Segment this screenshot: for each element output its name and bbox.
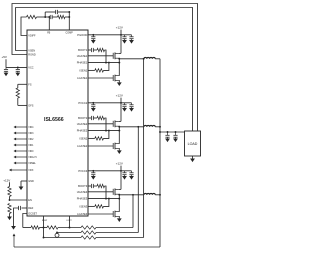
svg-text:OFS: OFS [28, 105, 33, 108]
capacitor C_IN1b [131, 35, 133, 37]
wire FB pin stub [48, 17, 50, 30]
ground for CVCC1 [4, 73, 9, 77]
ground for C_IN3b [129, 176, 134, 180]
capacitor C_PV1 [92, 35, 94, 37]
wire LGATE2 pin [88, 145, 113, 147]
svg-text:+12V: +12V [116, 26, 123, 30]
svg-text:ISEN2: ISEN2 [80, 137, 88, 141]
wire QL3 source to ground [118, 216, 121, 218]
node VID12.5 input arrow [16, 156, 27, 158]
svg-text:+12V: +12V [116, 162, 123, 166]
node row3 link dot [43, 237, 45, 239]
ground for C_IN2a [122, 108, 127, 112]
svg-text:LGATE1: LGATE1 [77, 76, 88, 80]
node row1 dot at IOUT stub [69, 227, 71, 229]
wire comp top branch left [45, 11, 56, 13]
wire comp bottom branch lead [45, 16, 50, 18]
node isen-phase junction dot [108, 62, 110, 64]
resistor R_OFS row1 [31, 226, 40, 229]
wire +12V rail phase 3 [120, 166, 122, 171]
wire QH2 source to phase node [118, 125, 121, 128]
load box [185, 131, 201, 156]
node VID4 input arrow [16, 126, 27, 128]
capacitor C2 parallel comp [55, 10, 57, 14]
capacitor CVCC2 bypass [17, 67, 19, 69]
svg-text:PHASE1: PHASE1 [77, 61, 88, 65]
transistor QH3 upper MOSFET [112, 189, 114, 195]
wire REN2 to ground [9, 214, 11, 217]
node row1 dot at IDROOP stub [43, 227, 45, 229]
transistor QL1 lower MOSFET [112, 75, 114, 81]
wire rail cap stub phase 2 [121, 102, 132, 104]
wire load ground stem [192, 156, 194, 159]
wire inductor to VOUT bus [155, 194, 160, 196]
resistor R_DRP row1 [47, 226, 58, 229]
wire PVCC2 pin [88, 102, 121, 104]
capacitor C_IN3a [124, 171, 126, 173]
wire PVCC1 pin [88, 34, 121, 36]
wire QH3 source to phase node [118, 193, 121, 196]
wire CREF to ground riser [14, 208, 19, 226]
wire rail to QH3 drain [120, 171, 122, 190]
node rail junction dot phase 3 [120, 170, 122, 172]
wire +12V rail phase 1 [120, 30, 122, 35]
svg-text:PVCC3: PVCC3 [78, 169, 87, 173]
svg-text:PGOOD: PGOOD [77, 33, 87, 37]
wire VOUT bus vertical [159, 59, 161, 247]
op-amp U1 ISL6566 controller IC body [27, 30, 88, 216]
svg-text:FB: FB [47, 32, 50, 35]
wire phase to inductor [119, 126, 144, 128]
wire ISEN1 pin [88, 69, 95, 71]
svg-text:VID2: VID2 [28, 139, 34, 141]
wire BOOT3 pin [88, 185, 91, 187]
wire vertical row1-row3 link [43, 228, 45, 238]
resistor RT frequency set [16, 88, 19, 98]
svg-text:VID1: VID1 [28, 145, 34, 147]
svg-text:VID12.5: VID12.5 [28, 157, 37, 159]
wire phase node vertical [118, 59, 120, 76]
wire LGATE3 pin [88, 213, 113, 215]
resistor REN2 enable divider lower [8, 204, 11, 214]
capacitor C_IN1a [124, 35, 126, 37]
node VID3 input arrow [16, 132, 27, 134]
capacitor C_IN3b [131, 171, 133, 173]
capacitor COUT2 bulk output [175, 132, 177, 135]
node riser2 tap dot [137, 126, 139, 128]
node EN junction dot [9, 199, 11, 201]
svg-text:ISEN3: ISEN3 [80, 205, 88, 209]
svg-text:IOUT: IOUT [67, 220, 73, 222]
ground for QL1 [117, 82, 122, 86]
ground for C_IN1b [129, 40, 134, 44]
wire FS pin [18, 83, 27, 85]
node VID2 input arrow [16, 138, 27, 140]
ground for COUT1 [165, 139, 170, 143]
node FB junction dot [44, 16, 46, 18]
svg-text:VFIX: VFIX [28, 170, 34, 172]
resistor RS2 row2 [81, 231, 96, 234]
wire CBOOT1 to RBOOT1 [93, 49, 97, 51]
wire phase to inductor [119, 194, 144, 196]
wire OFS pin [18, 104, 27, 106]
svg-text:ISEN1: ISEN1 [80, 69, 88, 73]
resistor RFB feedback [27, 15, 37, 18]
wire +12V rail phase 2 [120, 98, 122, 103]
node rail junction dot phase 2 [120, 102, 122, 104]
resistor RISEN1 [95, 69, 104, 72]
wire bottom row1 left [23, 227, 31, 229]
svg-text:BOOT1: BOOT1 [78, 48, 88, 52]
node PVCC3 cap junction dot [92, 170, 94, 172]
wire comp top branch right [58, 11, 70, 13]
ground for EN divider [7, 217, 12, 221]
wire PHASE3 pin [88, 198, 119, 200]
svg-text:COMP: COMP [66, 32, 74, 35]
wire rail to QH2 drain [120, 103, 122, 122]
capacitor C_SUM circle component [56, 232, 58, 235]
node VOUT bus junction dots [159, 126, 161, 128]
transistor QL2 lower MOSFET [112, 143, 114, 149]
svg-text:UGATE2: UGATE2 [77, 122, 88, 126]
svg-text:+5V: +5V [2, 55, 7, 59]
wire QH1 source to phase node [118, 57, 121, 60]
svg-text:IDRP: IDRP [42, 220, 48, 222]
wire BOOT2 pin [88, 117, 91, 119]
wire FS to RT [17, 84, 19, 88]
node PVCC2 cap junction dot [92, 102, 94, 104]
node boot-phase junction dot [105, 130, 107, 132]
node PGOOD-EN input arrow [11, 169, 27, 171]
wire QL2 drain to phase node [118, 143, 121, 145]
resistor RBOOT3 [97, 184, 105, 187]
node VID0 input arrow [16, 150, 27, 152]
wire VCC pin [6, 66, 27, 68]
wire QH3 drain to rail [119, 188, 121, 190]
node summing cap junction dot [56, 232, 58, 234]
wire QL1 drain to phase node [118, 75, 121, 77]
wire +5V drop to VCC [5, 59, 7, 67]
wire COMP pin stub [68, 12, 70, 30]
wire boot elbow to phase [105, 118, 107, 131]
capacitor CREF [18, 206, 20, 210]
ground for C_IN3a [122, 176, 127, 180]
wire RT to OFS [17, 98, 19, 105]
wire VSEN remote sense route [16, 8, 193, 132]
resistor RS3 row1 [81, 226, 96, 229]
resistor RBOOT1 [97, 48, 105, 51]
node VCC bypass junction [17, 66, 19, 68]
wire inductor to VOUT bus [155, 126, 160, 128]
wire boot elbow to phase [105, 186, 107, 199]
inductor L2 [144, 125, 155, 126]
wire RC to COMP node [65, 16, 69, 18]
svg-text:UGATE1: UGATE1 [77, 54, 88, 58]
wire ISEN3 pin [88, 205, 95, 207]
ground for QL3 [117, 218, 122, 222]
wire row2 to riser phase2 [96, 232, 138, 234]
wire row2 left [57, 232, 81, 234]
wire +12V to REN1 [9, 182, 11, 186]
wire UGATE3 pin [88, 191, 113, 193]
capacitor CBOOT3 [90, 184, 92, 188]
resistor RBOOT2 [97, 116, 105, 119]
wire VOUT to load [160, 131, 185, 133]
ground for load [190, 159, 195, 163]
node isen-phase junction dot [108, 198, 110, 200]
svg-text:VID0: VID0 [28, 151, 34, 153]
wire REN1 to EN node [9, 197, 11, 201]
wire riser to phase1 node [143, 59, 145, 238]
ground for GND pin [19, 187, 24, 191]
transistor QH2 upper MOSFET [112, 121, 114, 127]
node PVCC1 cap junction dot [92, 34, 94, 36]
svg-text:+12V: +12V [116, 94, 123, 98]
capacitor CVCC1 bypass [5, 67, 7, 69]
wire phase node vertical [118, 127, 120, 144]
wire PVCC3 pin [88, 170, 121, 172]
resistor RISEN3 [95, 205, 104, 208]
ground for C_PV1 [91, 40, 96, 44]
capacitor C_PV3 [92, 171, 94, 173]
svg-text:LGATE2: LGATE2 [77, 144, 88, 148]
wire LGATE1 pin [88, 77, 113, 79]
transistor QL3 lower MOSFET [112, 211, 114, 217]
svg-text:EN: EN [28, 199, 32, 202]
capacitor CBOOT1 [90, 48, 92, 52]
ground for C_PV2 [91, 108, 96, 112]
svg-text:+12V: +12V [3, 178, 10, 182]
capacitor COUT1 bulk output [167, 132, 169, 135]
wire REF pin [22, 207, 28, 209]
inductor L3 [144, 193, 155, 194]
wire VOUT bottom return [14, 246, 160, 248]
wire IOUT pin stub [69, 216, 71, 228]
node VOUT return arrow up [13, 236, 15, 247]
wire PHASE1 pin [88, 62, 119, 64]
node phase junction dots [118, 126, 120, 128]
resistor REN1 enable divider upper [8, 187, 11, 197]
wire row1 mid a [40, 227, 48, 229]
resistor RS1 row3 [81, 236, 96, 239]
wire ISEN elbow to phase [104, 63, 109, 71]
wire GND pin [21, 180, 27, 182]
wire OCSET pin elbow [23, 214, 27, 228]
wire QL1 source to ground [118, 80, 121, 82]
wire RFB to FB node [37, 16, 46, 18]
wire PHASE2 pin [88, 130, 119, 132]
svg-text:BOOT2: BOOT2 [78, 116, 88, 120]
svg-text:BOOT3: BOOT3 [78, 184, 88, 188]
ground for C_IN2b [129, 108, 134, 112]
svg-text:VDIFF: VDIFF [28, 35, 36, 38]
wire QH2 drain to rail [119, 120, 121, 122]
transistor QH1 upper MOSFET [112, 53, 114, 59]
wire IDROOP pin stub [43, 216, 45, 228]
svg-text:LGATE3: LGATE3 [77, 212, 88, 216]
resistor RC comp [58, 15, 66, 18]
svg-text:OCSET: OCSET [28, 212, 37, 215]
ground for C_IN1a [122, 40, 127, 44]
ground for C_PV3 [91, 176, 96, 180]
wire row1 to riser phase3 [96, 227, 133, 229]
wire GND stem [20, 181, 22, 187]
svg-text:UGATE3: UGATE3 [77, 190, 88, 194]
svg-text:GND: GND [28, 180, 34, 183]
node phase junction dots [118, 194, 120, 196]
wire phase to inductor [119, 58, 144, 60]
node phase junction dots [118, 58, 120, 60]
svg-text:VRSEL: VRSEL [28, 163, 36, 165]
capacitor C_IN2a [124, 103, 126, 105]
inductor L1 [144, 57, 155, 58]
ground for CVCC2 [15, 73, 20, 77]
node comp-left vertical [44, 12, 46, 17]
wire ISEN elbow to phase [104, 131, 109, 139]
svg-text:VID3: VID3 [28, 133, 34, 135]
wire QL2 source to ground [118, 148, 121, 150]
node boot-phase junction dot [105, 62, 107, 64]
capacitor C1 series comp [49, 15, 51, 19]
svg-text:PVCC2: PVCC2 [78, 101, 87, 105]
wire ISEN2 pin [88, 137, 95, 139]
wire EN pin [10, 199, 28, 201]
node VRSEL input arrow [16, 162, 27, 164]
wire inductor to VOUT bus [155, 58, 160, 60]
svg-text:ISL6566: ISL6566 [44, 117, 64, 123]
wire phase node vertical [118, 195, 120, 212]
wire boot elbow to phase [105, 50, 107, 63]
svg-text:LOAD: LOAD [188, 142, 198, 146]
wire CBOOT2 to RBOOT2 [93, 117, 97, 119]
wire row3 left [44, 237, 82, 239]
capacitor C_IN2b [131, 103, 133, 105]
wire RGND remote sense route [12, 4, 198, 132]
svg-text:FS: FS [28, 83, 32, 86]
wire QL3 drain to phase node [118, 211, 121, 213]
svg-text:REF: REF [28, 207, 33, 210]
node COMP junction dots [68, 11, 70, 13]
ground for CREF [11, 226, 16, 230]
wire riser to phase2 node [137, 127, 139, 233]
wire rail cap stub phase 3 [121, 170, 132, 172]
wire QH1 drain to rail [119, 52, 121, 54]
svg-text:PHASE2: PHASE2 [77, 129, 88, 133]
svg-text:VCC: VCC [28, 67, 33, 70]
node rail junction dot phase 1 [120, 34, 122, 36]
node boot-phase junction dot [105, 198, 107, 200]
wire C1 to RC [52, 16, 57, 18]
capacitor C_PV2 [92, 103, 94, 105]
wire rail to QH1 drain [120, 35, 122, 54]
wire row1 mid b [58, 227, 81, 229]
wire row3 to riser phase1 [96, 237, 144, 239]
node riser3 tap dot [132, 194, 134, 196]
wire CBOOT3 to RBOOT3 [93, 185, 97, 187]
svg-text:VSEN: VSEN [28, 50, 35, 53]
wire ISEN elbow to phase [104, 199, 109, 207]
ground for QL2 [117, 150, 122, 154]
svg-text:RGND: RGND [28, 54, 36, 57]
svg-text:VID4: VID4 [28, 127, 34, 129]
capacitor CBOOT2 [90, 116, 92, 120]
ground for COUT2 [173, 139, 178, 143]
node VDIFF wire elbow to feedback resistor [21, 17, 27, 36]
resistor RISEN2 [95, 137, 104, 140]
wire riser to phase3 node [132, 195, 134, 228]
node riser1 tap dot [143, 58, 145, 60]
wire UGATE2 pin [88, 123, 113, 125]
wire BOOT1 pin [88, 49, 91, 51]
wire UGATE1 pin [88, 55, 113, 57]
node VID1 input arrow [16, 144, 27, 146]
node isen-phase junction dot [108, 130, 110, 132]
wire rail cap stub phase 1 [121, 34, 132, 36]
svg-text:PHASE3: PHASE3 [77, 197, 88, 201]
